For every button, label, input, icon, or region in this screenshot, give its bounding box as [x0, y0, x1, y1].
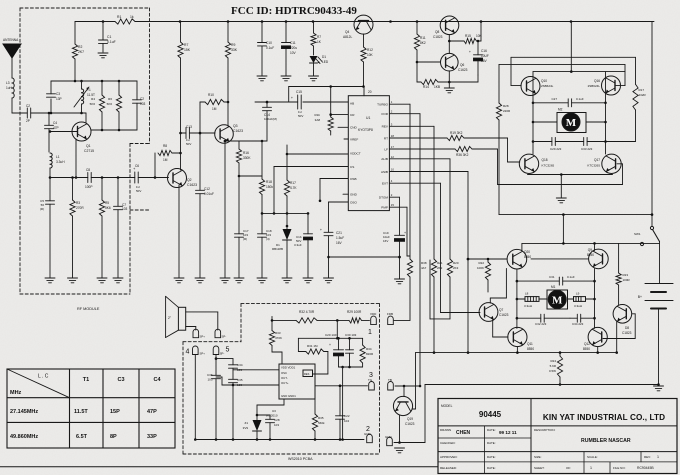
wire drop to gnd rail — [342, 367, 344, 440]
wire y81 — [51, 80, 137, 83]
svg-text:C28: C28 — [274, 418, 280, 422]
ground C11 — [281, 76, 291, 81]
svg-text:R11: R11 — [420, 36, 426, 40]
resistor R14 — [417, 79, 451, 89]
svg-text:5K6: 5K6 — [105, 206, 111, 210]
capacitor C28 — [256, 414, 280, 440]
resistor R16 — [236, 141, 251, 177]
resistor R20 — [447, 259, 458, 319]
svg-text:220R: 220R — [503, 109, 511, 113]
svg-text:4.7K: 4.7K — [290, 186, 297, 190]
svg-text:M: M — [552, 294, 563, 306]
svg-text:RC90445B: RC90445B — [637, 466, 654, 470]
svg-text:R28: R28 — [503, 104, 509, 108]
svg-text:KTC3265: KTC3265 — [587, 164, 600, 168]
svg-text:C34: C34 — [237, 363, 243, 367]
wire Q8-Q6 link — [448, 35, 451, 54]
svg-text:27.145MHz: 27.145MHz — [10, 409, 38, 415]
svg-text:R2: R2 — [78, 45, 82, 49]
svg-text:DATE:: DATE: — [487, 455, 496, 459]
svg-text:T1: T1 — [87, 88, 91, 92]
svg-text:R17: R17 — [290, 181, 296, 185]
svg-text:C10: C10 — [266, 41, 272, 45]
svg-text:100P: 100P — [85, 185, 92, 189]
wire OSO pin — [329, 201, 349, 203]
resistor R17b — [606, 57, 647, 141]
wire Q20 base — [467, 258, 507, 261]
resistor R17 4K7 — [284, 145, 297, 196]
svg-text:5K6: 5K6 — [90, 102, 96, 106]
wire OSB pin — [319, 179, 348, 203]
svg-text:2P: 2P — [26, 119, 30, 123]
svg-text:R15: R15 — [465, 34, 471, 38]
capacitor C21 — [320, 202, 344, 278]
svg-text:R36 3K2: R36 3K2 — [456, 153, 469, 157]
svg-text:50V: 50V — [136, 189, 141, 193]
ground R3 — [68, 278, 78, 283]
svg-text:R14: R14 — [423, 85, 429, 89]
svg-text:2'': 2'' — [168, 316, 171, 320]
wire bus TURBO — [389, 104, 410, 259]
svg-text:2: 2 — [366, 426, 370, 433]
svg-text:16V: 16V — [481, 59, 488, 63]
svg-text:R33: R33 — [275, 331, 281, 335]
svg-text:SP+: SP+ — [200, 352, 206, 356]
inductor L1 — [49, 153, 66, 179]
svg-text:R23: R23 — [623, 273, 629, 277]
svg-text:RUMBLER NASCAR: RUMBLER NASCAR — [581, 438, 631, 444]
bottom page rule — [0, 466, 438, 468]
svg-text:4: 4 — [186, 349, 190, 356]
wire TB to Q19 base — [395, 385, 420, 397]
capacitor C36 — [207, 355, 221, 440]
svg-text:0.1uF: 0.1uF — [107, 40, 116, 44]
transistor Q6 — [441, 53, 468, 72]
capacitor C34 — [570, 314, 595, 326]
svg-text:SP-: SP- — [220, 352, 225, 356]
svg-text:2SB624L: 2SB624L — [588, 84, 601, 88]
ground C12 — [195, 278, 205, 283]
capacitor C19b — [294, 213, 313, 278]
pad VDD inner — [370, 312, 377, 325]
wire y86.5 to pin20 — [289, 85, 372, 102]
svg-text:R12: R12 — [367, 48, 373, 52]
svg-text:560k: 560k — [318, 421, 325, 425]
svg-text:R9: R9 — [231, 43, 235, 47]
svg-text:16V: 16V — [383, 239, 388, 243]
svg-text:R18: R18 — [266, 180, 272, 184]
svg-text:Q7: Q7 — [499, 308, 503, 312]
pad SP+ 4 — [186, 346, 206, 356]
svg-text:Q10: Q10 — [541, 79, 547, 83]
big 1 — [368, 329, 372, 336]
svg-text:OUT+: OUT+ — [281, 381, 289, 385]
resistor R2 — [72, 22, 84, 82]
svg-text:C16: C16 — [481, 49, 487, 53]
svg-text:5: 5 — [226, 347, 230, 354]
svg-text:M2: M2 — [558, 108, 563, 112]
resistor R18 — [259, 141, 273, 195]
capacitor C9 2P — [12, 104, 50, 123]
svg-text:AB: AB — [350, 102, 354, 106]
svg-text:10UF: 10UF — [481, 54, 489, 58]
wire FDB feed — [394, 319, 410, 321]
svg-text:10: 10 — [391, 168, 395, 172]
svg-text:33P: 33P — [147, 434, 157, 440]
svg-text:220u: 220u — [290, 46, 297, 50]
resistor R34 — [360, 338, 374, 367]
svg-text:15: 15 — [391, 203, 395, 207]
wire Q1 collector node — [91, 129, 137, 132]
wire gnd rail inner — [195, 438, 364, 441]
svg-text:R35: R35 — [318, 416, 324, 420]
svg-text:8550: 8550 — [587, 253, 594, 257]
ground D6 — [282, 278, 292, 283]
wire cross coupling B — [499, 64, 625, 85]
big 2 — [366, 426, 370, 433]
svg-text:C32 223: C32 223 — [535, 322, 547, 326]
svg-text:Q9: Q9 — [588, 248, 592, 252]
svg-text:Q11: Q11 — [527, 342, 533, 346]
svg-text:R10: R10 — [208, 93, 214, 97]
svg-text:1: 1 — [590, 466, 592, 470]
svg-text:C6: C6 — [135, 164, 139, 168]
svg-text:90445: 90445 — [479, 410, 502, 419]
svg-text:ASIB: ASIB — [381, 170, 388, 174]
wire CR pin — [329, 113, 348, 116]
pad TO inner — [368, 378, 374, 390]
svg-text:50V: 50V — [298, 114, 303, 118]
wire bus ALIB — [389, 159, 450, 259]
svg-text:C27: C27 — [551, 97, 557, 101]
svg-text:CS: CS — [350, 165, 354, 169]
transistor Q12 — [583, 327, 607, 351]
svg-text:C21: C21 — [336, 231, 342, 235]
svg-text:C4: C4 — [153, 377, 161, 383]
resistor R21 — [431, 259, 442, 354]
svg-text:MHz: MHz — [10, 390, 22, 396]
capacitor C18 103 — [258, 195, 272, 279]
svg-text:R1b: R1b — [314, 113, 320, 117]
resistor R7 — [178, 22, 191, 59]
capacitor C27 — [533, 97, 606, 107]
svg-text:3.3uF: 3.3uF — [294, 243, 302, 247]
U3 label — [266, 409, 278, 418]
wire switch to battery — [659, 242, 661, 284]
svg-text:C33 223: C33 223 — [581, 147, 593, 151]
svg-text:CND: CND — [350, 126, 357, 130]
svg-text:WS2010: WS2010 — [266, 414, 278, 418]
svg-text:C1623: C1623 — [458, 68, 468, 72]
svg-text:C22: C22 — [344, 414, 350, 418]
svg-text:12: 12 — [391, 155, 395, 159]
wire Q6 base — [417, 61, 440, 63]
wire Q19 emitter — [398, 416, 401, 444]
ground Q2 — [174, 278, 184, 283]
svg-text:A812L: A812L — [343, 35, 352, 39]
svg-text:TB: TB — [388, 378, 392, 382]
svg-text:RT: RT — [384, 136, 388, 140]
pad GND outer — [385, 435, 393, 446]
svg-text:D1: D1 — [322, 55, 326, 59]
svg-text:FDB: FDB — [387, 312, 393, 316]
resistor R9 — [225, 22, 237, 127]
svg-text:FILE NO:: FILE NO: — [613, 466, 626, 470]
svg-text:6.5T: 6.5T — [76, 434, 88, 440]
wire U3 pin feeds — [216, 370, 279, 387]
svg-text:13P: 13P — [56, 97, 62, 101]
resistor R33 — [269, 316, 282, 364]
svg-text:33K: 33K — [231, 48, 238, 52]
wire bridge2 left vert — [516, 269, 519, 328]
ground LED — [309, 76, 319, 81]
svg-text:C13: C13 — [186, 125, 192, 129]
svg-text:C1623: C1623 — [499, 313, 509, 317]
svg-text:DATE:: DATE: — [487, 466, 496, 470]
wire bus EXT — [389, 183, 480, 312]
wire bridge V+ drop — [570, 22, 573, 73]
svg-text:C1623: C1623 — [187, 183, 197, 187]
wire R7-C13 vertical — [179, 58, 182, 170]
svg-text:CHECKED:: CHECKED: — [440, 441, 456, 445]
capacitor C29 — [533, 138, 584, 152]
svg-text:0.5W: 0.5W — [549, 369, 556, 373]
svg-text:C1823: C1823 — [622, 331, 632, 335]
wire motor M2 taps — [533, 121, 606, 123]
svg-text:T1: T1 — [83, 377, 89, 383]
svg-text:99 12 11: 99 12 11 — [499, 430, 517, 435]
wire bus PMP — [389, 207, 410, 256]
transistor Q20 — [507, 249, 531, 269]
zener Z1 — [243, 399, 284, 440]
wire bridge emitter rail — [528, 173, 613, 176]
pad SP- upper — [215, 329, 226, 338]
svg-text:3.3uH: 3.3uH — [574, 304, 582, 308]
capacitor C31 — [517, 275, 595, 285]
transistor Q4 — [343, 15, 373, 39]
svg-text:232R: 232R — [639, 93, 647, 97]
ground C21 — [324, 278, 334, 283]
svg-text:1uH: 1uH — [6, 86, 13, 90]
resistor R37 — [311, 22, 322, 56]
transistor Q1 — [72, 122, 94, 153]
resistor R11 — [414, 22, 425, 83]
svg-text:50V: 50V — [186, 142, 191, 146]
svg-text:R21: R21 — [437, 261, 443, 265]
capacitor C3 — [47, 81, 62, 114]
svg-text:Z1: Z1 — [244, 421, 248, 425]
svg-text:ANTENNA: ANTENNA — [3, 38, 19, 42]
ground R5 — [97, 278, 107, 283]
pad SP+ upper — [193, 329, 205, 338]
svg-text:C8: C8 — [86, 168, 90, 172]
wire Q7 collector — [490, 269, 506, 304]
svg-text:270R: 270R — [76, 206, 84, 210]
svg-text:150k: 150k — [266, 185, 273, 189]
svg-text:R38: R38 — [421, 261, 427, 265]
svg-text:R24: R24 — [550, 359, 556, 363]
wire V+ right rail — [651, 22, 653, 227]
svg-text:APPROVED:: APPROVED: — [440, 455, 458, 459]
svg-text:M1: M1 — [551, 285, 556, 289]
svg-text:Q20: Q20 — [524, 250, 530, 254]
svg-text:ALIB: ALIB — [381, 157, 388, 161]
wire bridge right vert — [604, 72, 607, 154]
svg-text:R8: R8 — [163, 144, 167, 148]
svg-text:C3: C3 — [56, 92, 60, 96]
svg-text:DATE:: DATE: — [487, 428, 496, 432]
wire TQ1 out — [315, 385, 368, 388]
svg-text:1k: 1k — [130, 15, 134, 19]
resistor R10 — [200, 93, 228, 111]
svg-text:0.01uF: 0.01uF — [204, 192, 214, 196]
motor M2 — [557, 108, 586, 133]
svg-text:C2: C2 — [140, 97, 144, 101]
capacitor C11 electrolytic — [282, 22, 298, 77]
svg-text:C3: C3 — [117, 377, 124, 383]
svg-text:+: + — [329, 343, 331, 347]
title block — [438, 399, 677, 474]
wire CND pin — [338, 126, 348, 128]
svg-text:LED: LED — [322, 60, 329, 64]
svg-text:820R: 820R — [366, 352, 374, 356]
svg-text:17: 17 — [391, 145, 395, 149]
svg-text:Q19: Q19 — [407, 417, 413, 421]
svg-text:5.6R: 5.6R — [550, 364, 557, 368]
svg-text:C36: C36 — [207, 373, 213, 377]
svg-text:1: 1 — [368, 329, 372, 336]
resistor R13 — [314, 87, 333, 136]
capacitor C7 103 — [114, 178, 128, 279]
resistor R4 — [90, 81, 105, 130]
svg-text:Q8: Q8 — [435, 30, 439, 34]
svg-text:R17: R17 — [639, 88, 645, 92]
svg-text:C1: C1 — [107, 35, 111, 39]
capacitor C30 — [345, 333, 357, 367]
svg-text:C31: C31 — [549, 275, 555, 279]
wire y257 link — [329, 256, 401, 259]
wire C34 C35 feed — [216, 359, 233, 365]
svg-text:WS2010 PCBA: WS2010 PCBA — [288, 457, 313, 461]
capacitor C16 — [469, 40, 489, 75]
svg-text:C11: C11 — [290, 41, 296, 45]
svg-text:L9: L9 — [576, 292, 580, 296]
svg-text:R22: R22 — [478, 261, 484, 265]
wire bridge left vert — [532, 72, 535, 154]
svg-text:GND: GND — [350, 193, 358, 197]
battery B1 — [638, 284, 673, 309]
svg-text:Q16: Q16 — [594, 79, 600, 83]
resistor R22 — [477, 258, 491, 292]
wire Q13 base — [603, 314, 635, 339]
wire Q1 base — [49, 130, 78, 133]
motor M1 — [547, 285, 568, 309]
svg-text:0.1uF: 0.1uF — [576, 97, 584, 101]
resistor R15 — [449, 22, 482, 44]
frequency table — [7, 369, 175, 448]
svg-text:R7: R7 — [317, 35, 321, 39]
svg-text:C1823: C1823 — [433, 35, 443, 39]
transistor Q9 — [587, 248, 608, 269]
ground C10 — [257, 76, 267, 81]
wire Q6 emitter — [449, 71, 478, 82]
svg-text:2K2: 2K2 — [437, 266, 443, 270]
svg-text:1M: 1M — [212, 107, 217, 111]
svg-text:C20 1UF: C20 1UF — [325, 333, 337, 337]
antenna — [3, 38, 21, 78]
svg-text:U3: U3 — [272, 409, 276, 413]
capacitor C6 electrolytic — [118, 164, 155, 193]
svg-text:EXT: EXT — [382, 182, 388, 186]
resistor R5 — [99, 178, 110, 279]
svg-text:18: 18 — [391, 134, 395, 138]
pad TB outer — [388, 378, 394, 390]
resistor R32 — [271, 310, 349, 323]
svg-text:8P: 8P — [110, 434, 117, 440]
wire bridge2 top — [522, 215, 660, 251]
resistor R8 — [154, 144, 182, 179]
transistor Q8 — [433, 16, 459, 39]
ground C1 — [98, 53, 108, 58]
svg-text:+: + — [320, 228, 322, 232]
svg-text:4A7: 4A7 — [421, 266, 427, 270]
wire battery neg — [658, 309, 660, 385]
resistor R36 — [389, 146, 472, 157]
wire C20 bottom — [339, 366, 363, 369]
svg-text:470K: 470K — [275, 336, 282, 340]
svg-text:(4): (4) — [266, 237, 270, 241]
svg-text:Q1: Q1 — [86, 144, 91, 148]
capacitor C14 — [263, 101, 278, 141]
transistor Q11 — [508, 327, 535, 351]
svg-text:Q6: Q6 — [460, 63, 464, 67]
svg-text:Q4: Q4 — [345, 30, 349, 34]
big 3 — [369, 372, 373, 379]
svg-text:49.860MHz: 49.860MHz — [10, 434, 38, 440]
svg-text:R4: R4 — [91, 97, 95, 101]
ground C17 — [234, 278, 244, 283]
svg-text:3V9: 3V9 — [243, 426, 249, 430]
RF module dashed boundary — [20, 8, 150, 294]
svg-text:RES: RES — [304, 372, 310, 376]
svg-text:103: 103 — [207, 378, 212, 382]
resistor R24 — [549, 353, 563, 386]
svg-text:OF:: OF: — [566, 466, 571, 470]
wire VDD rail — [298, 337, 362, 340]
capacitor C10 — [258, 22, 275, 77]
svg-text:16V: 16V — [336, 241, 343, 245]
capacitor C34b — [229, 363, 243, 379]
wire VREF stub — [344, 138, 348, 140]
svg-text:2SB624L: 2SB624L — [541, 84, 554, 88]
svg-text:D8: D8 — [625, 326, 629, 330]
svg-text:DESCRIPTION:: DESCRIPTION: — [534, 428, 556, 432]
resistor R6 — [107, 81, 122, 130]
svg-text:C1623: C1623 — [405, 422, 415, 426]
svg-text:R19 3K2: R19 3K2 — [450, 131, 463, 135]
wire GND pad run — [394, 385, 425, 443]
svg-text:VDD: VDD — [370, 312, 377, 316]
svg-text:(R): (R) — [243, 237, 247, 241]
capacitor C13 — [181, 125, 216, 146]
wire bus ASIB — [389, 172, 469, 354]
svg-text:C4: C4 — [53, 121, 57, 125]
svg-text:RF MODULE: RF MODULE — [77, 307, 100, 311]
svg-text:0.1uF: 0.1uF — [567, 275, 575, 279]
ground C5 — [45, 278, 55, 283]
wire gnd rail y384 — [425, 383, 660, 386]
svg-text:SP-: SP- — [222, 335, 227, 339]
